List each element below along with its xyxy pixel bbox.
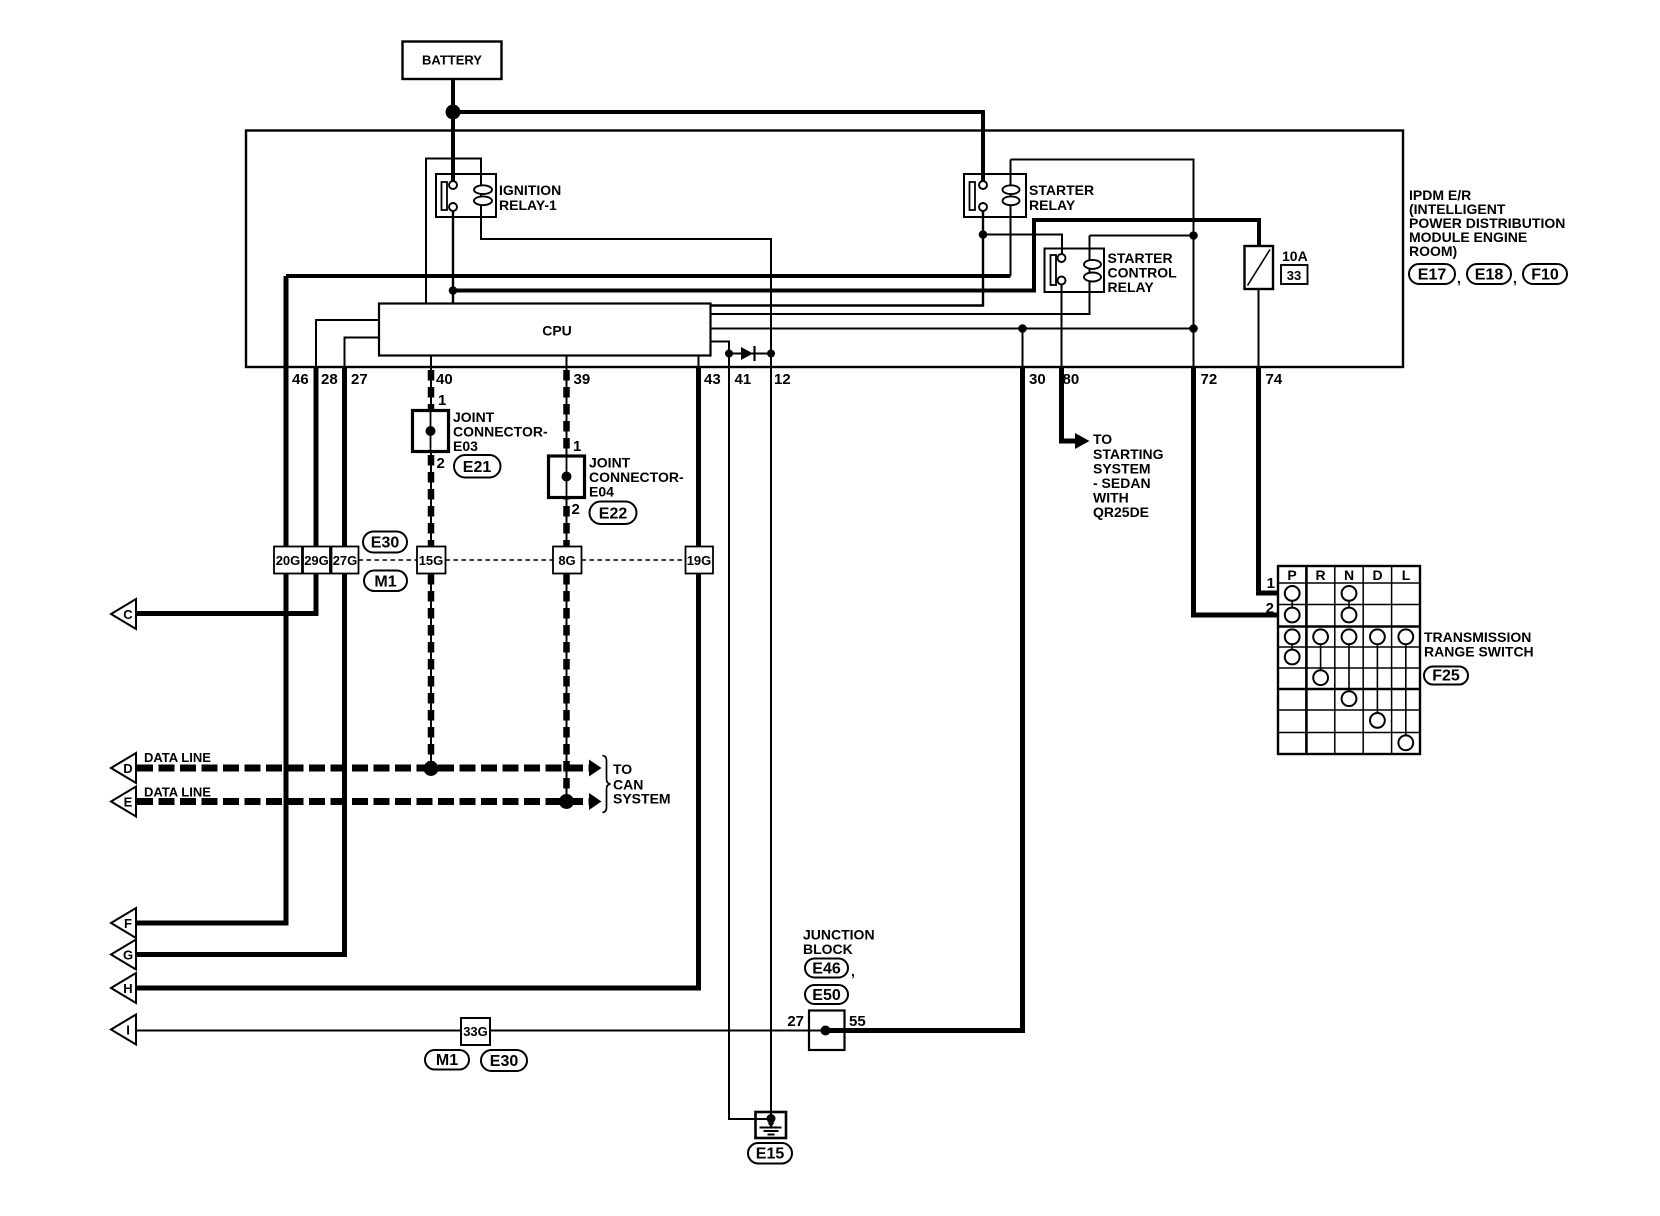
svg-text:C: C	[123, 607, 133, 622]
svg-text:E15: E15	[756, 1146, 785, 1163]
svg-text:E17: E17	[1418, 267, 1447, 284]
svg-text:41: 41	[735, 371, 752, 388]
svg-text:E: E	[124, 795, 133, 810]
svg-text:E18: E18	[1475, 267, 1504, 284]
svg-text:40: 40	[436, 371, 453, 388]
svg-text:E46: E46	[812, 961, 841, 978]
svg-text:CPU: CPU	[542, 323, 572, 339]
svg-text:74: 74	[1266, 371, 1283, 388]
svg-text:G: G	[123, 948, 133, 963]
svg-text:F: F	[124, 916, 132, 931]
svg-text:15G: 15G	[419, 553, 444, 568]
svg-text:27: 27	[351, 371, 368, 388]
svg-text:TO: TO	[613, 761, 632, 777]
svg-text:2: 2	[437, 455, 445, 472]
svg-text:F10: F10	[1531, 267, 1559, 284]
svg-text:IGNITION: IGNITION	[499, 182, 561, 198]
svg-text:E30: E30	[371, 535, 400, 552]
svg-text:RANGE SWITCH: RANGE SWITCH	[1424, 644, 1534, 660]
svg-text:STARTER: STARTER	[1029, 182, 1094, 198]
svg-text:43: 43	[704, 371, 721, 388]
svg-text:39: 39	[574, 371, 591, 388]
svg-text:2: 2	[572, 501, 580, 518]
svg-text:28: 28	[321, 371, 338, 388]
svg-text:L: L	[1402, 567, 1411, 583]
svg-text:BATTERY: BATTERY	[422, 53, 482, 68]
svg-text:F25: F25	[1432, 668, 1460, 685]
svg-text:8G: 8G	[558, 553, 575, 568]
svg-text:1: 1	[438, 392, 446, 409]
svg-text:27: 27	[787, 1013, 804, 1030]
svg-text:12: 12	[774, 371, 791, 388]
svg-text:1: 1	[573, 438, 581, 455]
svg-text:33: 33	[1287, 268, 1301, 283]
svg-text:27G: 27G	[333, 553, 358, 568]
svg-text:E22: E22	[599, 506, 628, 523]
svg-text:D: D	[123, 761, 132, 776]
svg-text:TO: TO	[1093, 431, 1112, 447]
svg-text:D: D	[1372, 567, 1382, 583]
svg-text:,: ,	[1513, 270, 1517, 286]
svg-text:,: ,	[851, 963, 855, 979]
svg-text:BLOCK: BLOCK	[803, 941, 853, 957]
svg-text:19G: 19G	[687, 553, 712, 568]
svg-text:DATA LINE: DATA LINE	[144, 785, 211, 800]
svg-text:I: I	[126, 1023, 130, 1038]
svg-text:E04: E04	[589, 484, 614, 500]
svg-text:20G: 20G	[276, 553, 301, 568]
svg-text:SYSTEM: SYSTEM	[613, 791, 671, 807]
svg-text:10A: 10A	[1282, 248, 1308, 264]
svg-text:RELAY: RELAY	[1029, 197, 1076, 213]
svg-text:,: ,	[1457, 270, 1461, 286]
svg-text:E50: E50	[812, 987, 841, 1004]
svg-text:RELAY: RELAY	[1108, 279, 1155, 295]
svg-text:29G: 29G	[304, 553, 329, 568]
svg-text:2: 2	[1266, 600, 1274, 617]
svg-text:R: R	[1315, 567, 1325, 583]
svg-text:E03: E03	[453, 438, 478, 454]
svg-text:1: 1	[1267, 575, 1275, 592]
svg-text:55: 55	[849, 1013, 866, 1030]
svg-text:M1: M1	[436, 1052, 458, 1069]
svg-text:33G: 33G	[463, 1024, 488, 1039]
svg-text:M1: M1	[374, 574, 396, 591]
svg-text:46: 46	[292, 371, 309, 388]
svg-text:QR25DE: QR25DE	[1093, 504, 1149, 520]
svg-text:H: H	[123, 981, 132, 996]
svg-text:P: P	[1287, 567, 1296, 583]
svg-text:RELAY-1: RELAY-1	[499, 197, 557, 213]
svg-text:E30: E30	[490, 1053, 519, 1070]
svg-text:E21: E21	[463, 459, 492, 476]
svg-text:ROOM): ROOM)	[1409, 243, 1457, 259]
svg-text:30: 30	[1029, 371, 1046, 388]
svg-text:80: 80	[1063, 371, 1080, 388]
svg-text:72: 72	[1201, 371, 1218, 388]
svg-text:DATA LINE: DATA LINE	[144, 750, 211, 765]
svg-text:N: N	[1344, 567, 1354, 583]
